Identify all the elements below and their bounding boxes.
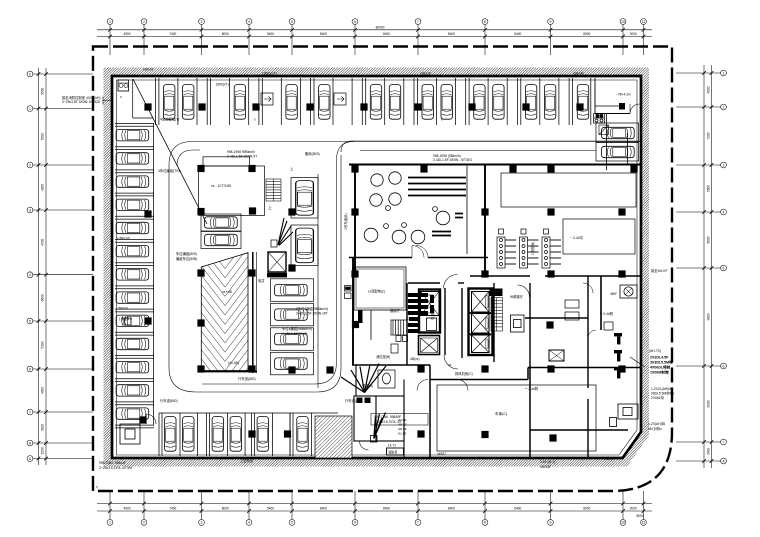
right band fixtures	[565, 283, 596, 338]
svg-text:2: 2	[143, 521, 145, 525]
svg-text:*~2-4#院: *~2-4#院	[600, 311, 614, 316]
svg-text:车库(C): 车库(C)	[495, 411, 507, 416]
svg-text:5400: 5400	[514, 32, 521, 36]
svg-text:x4567: x4567	[437, 452, 446, 456]
svg-text:8400: 8400	[320, 32, 327, 36]
svg-text:5600: 5600	[707, 185, 711, 192]
svg-text:6: 6	[354, 20, 356, 24]
svg-text:1500: 1500	[41, 447, 45, 454]
left grid lines and bubbles	[27, 71, 93, 461]
right margin label stack 2	[651, 387, 675, 400]
svg-text:4200: 4200	[40, 184, 44, 191]
svg-text:排风机房(C): 排风机房(C)	[455, 371, 473, 376]
slash box in stall	[599, 125, 609, 135]
svg-text:5: 5	[291, 521, 293, 525]
elevator lobby top wall	[407, 283, 464, 365]
svg-text:6600: 6600	[40, 294, 44, 301]
ramp side walls	[200, 252, 257, 373]
right margin bold label stack 1	[650, 356, 673, 375]
left wall of electrical area	[352, 258, 354, 366]
central smoke shaft	[267, 252, 287, 277]
pump room top wall	[349, 164, 641, 166]
svg-text:接至AH-KF: 接至AH-KF	[651, 268, 667, 273]
svg-text:80000: 80000	[376, 26, 385, 30]
core stair	[391, 320, 407, 335]
svg-text:3~25x3.5F 3X06L 6/T.528: 3~25x3.5F 3X06L 6/T.528	[62, 100, 100, 104]
right dimension line	[704, 65, 712, 468]
svg-text:4300: 4300	[41, 387, 45, 394]
svg-text:11: 11	[642, 20, 646, 24]
svg-text:3: 3	[29, 208, 31, 212]
pump room bottom wall	[349, 257, 488, 259]
charging box symbols in empty stalls	[261, 93, 346, 105]
svg-text:5M 封特x: 5M 封特x	[648, 426, 662, 431]
right elevator cars	[472, 292, 490, 353]
pipe bars	[408, 178, 466, 236]
svg-text:~7B+4.2m: ~7B+4.2m	[616, 93, 631, 97]
svg-text:1X06M封堵: 1X06M封堵	[650, 370, 669, 375]
vertical labels	[343, 213, 535, 320]
aisle curve top right of stalls	[337, 142, 355, 161]
svg-text:8000: 8000	[222, 506, 229, 510]
pit label white box	[371, 414, 428, 426]
top dimension line	[97, 30, 652, 37]
aisle inner line right	[360, 150, 596, 152]
top grid lines and bubbles	[107, 19, 646, 55]
svg-text:5: 5	[29, 319, 31, 323]
corridor bottom wall	[352, 365, 641, 380]
svg-text:2-4DL1.5F 25/6N x5T: 2-4DL1.5F 25/6N x5T	[296, 312, 328, 316]
damper symbols right band	[604, 322, 622, 378]
svg-text:2000: 2000	[630, 32, 637, 36]
svg-text:3500: 3500	[40, 87, 44, 94]
svg-text:行车道(800): 行车道(800)	[345, 398, 363, 403]
svg-text:2: 2	[143, 20, 145, 24]
smoke exhaust box right band	[549, 350, 564, 361]
svg-text:8000: 8000	[636, 514, 643, 518]
equipment boxes bottom right	[610, 404, 639, 427]
svg-text:3.5/4F: 3.5/4F	[604, 457, 613, 461]
svg-text:2X06L特: 2X06L特	[651, 395, 665, 400]
svg-text:10: 10	[621, 521, 625, 525]
small shaft left	[419, 336, 440, 355]
svg-text:3~25x3.5 3Y0L 4/T: 3~25x3.5 3Y0L 4/T	[374, 420, 402, 424]
central stair	[266, 179, 281, 201]
svg-text:8: 8	[484, 20, 486, 24]
right grid lines and bubbles	[676, 70, 726, 464]
svg-text:8400: 8400	[320, 506, 327, 510]
room above ramp outline	[199, 157, 265, 216]
svg-text:x98-D8: x98-D8	[420, 72, 431, 76]
svg-text:1号车道(B): 1号车道(B)	[343, 213, 348, 230]
water tanks	[364, 172, 450, 244]
conduit branches fan	[278, 218, 293, 246]
svg-text:06034F: 06034F	[540, 465, 551, 469]
svg-text:| 车位4.5: | 车位4.5	[119, 316, 132, 321]
svg-text:2400: 2400	[707, 448, 711, 455]
svg-text:9800: 9800	[707, 313, 711, 320]
svg-text:1: 1	[109, 20, 111, 24]
feeder panels	[497, 229, 561, 268]
corridor wall below rooms	[390, 282, 641, 284]
pump room inner divider	[466, 166, 468, 254]
bottom-left pit room	[117, 410, 160, 444]
bottom parking row stalls	[159, 413, 338, 456]
svg-text:1850x(xT): 1850x(xT)	[262, 72, 277, 76]
panel row below stair	[391, 336, 408, 354]
svg-text:2-4DL1.5F 25/5N - 5/T.5E1: 2-4DL1.5F 25/5N - 5/T.5E1	[433, 158, 473, 162]
svg-text:(4x-xB): (4x-xB)	[228, 361, 239, 365]
svg-text:11: 11	[642, 521, 646, 525]
property boundary dashed line	[93, 47, 672, 492]
storage room shelf	[595, 105, 619, 107]
svg-text:4: 4	[248, 521, 250, 525]
svg-text:上: 上	[268, 204, 272, 210]
svg-text:1-2X(AH)特: 1-2X(AH)特	[648, 421, 666, 426]
svg-text:消防泵: 消防泵	[388, 449, 398, 454]
svg-text:x99-04: x99-04	[143, 68, 153, 72]
svg-text:1: 1	[29, 107, 31, 111]
svg-text:7: 7	[29, 410, 31, 414]
svg-text:候梯(B): 候梯(B)	[362, 383, 373, 388]
left parking column cars	[116, 130, 149, 420]
svg-text:2: 2	[723, 105, 725, 109]
center upper cars	[296, 181, 314, 263]
svg-text:2000: 2000	[630, 506, 637, 510]
svg-text:2X2DL4.5F: 2X2DL4.5F	[650, 356, 669, 360]
svg-text:7: 7	[723, 440, 725, 444]
svg-text:4车位编组(T): 4车位编组(T)	[160, 117, 179, 122]
fire control room walls	[354, 365, 404, 457]
svg-text:8000: 8000	[222, 32, 229, 36]
svg-text:7: 7	[417, 521, 419, 525]
drive aisle loop outer	[169, 142, 642, 393]
svg-text:3X3DL5.5M特: 3X3DL5.5M特	[650, 360, 673, 365]
svg-text:9: 9	[550, 521, 552, 525]
svg-text:3: 3	[201, 20, 203, 24]
svg-text:3: 3	[723, 163, 725, 167]
svg-text:5U.1E: 5U.1E	[398, 432, 406, 436]
door arcs corridor	[444, 275, 530, 370]
left column stall labels	[117, 236, 130, 310]
svg-text:3-65 (M-1): 3-65 (M-1)	[540, 460, 555, 464]
two cars above ramp	[201, 214, 241, 249]
svg-text:10: 10	[621, 20, 625, 24]
svg-text:5: 5	[291, 20, 293, 24]
svg-text:5400: 5400	[267, 32, 274, 36]
svg-text:5100: 5100	[41, 341, 45, 348]
svg-text:3: 3	[201, 521, 203, 525]
svg-text:6: 6	[29, 367, 31, 371]
center lower stalls	[271, 279, 314, 375]
storage room door arc	[630, 104, 640, 114]
svg-text:1: 1	[109, 521, 111, 525]
elevator separators black	[469, 312, 491, 335]
svg-text:xx变配电(C): xx变配电(C)	[368, 289, 385, 294]
pump room left wall	[354, 165, 356, 277]
bottom grid lines and bubbles	[107, 491, 646, 525]
svg-text:*~2-4#院: *~2-4#院	[525, 386, 539, 391]
svg-text:4B(xx): 4B(xx)	[410, 357, 420, 361]
svg-text:8000: 8000	[583, 506, 590, 510]
svg-text:4000: 4000	[707, 86, 711, 93]
conduit diagonal from corner	[133, 79, 207, 224]
svg-text:4700: 4700	[40, 239, 44, 246]
svg-text:1: 1	[723, 71, 725, 75]
leader to stack1	[630, 357, 645, 367]
bottom right rooms	[430, 365, 628, 457]
svg-text:8000: 8000	[583, 32, 590, 36]
svg-text:8: 8	[484, 521, 486, 525]
elevator bank walls	[419, 289, 493, 356]
svg-text:4车位编组(T03): 4车位编组(T03)	[158, 168, 181, 173]
svg-text:7: 7	[417, 20, 419, 24]
svg-text:4B/F: 4B/F	[610, 292, 617, 296]
svg-text:车位编组(800): 车位编组(800)	[176, 251, 197, 256]
svg-text:6: 6	[354, 521, 356, 525]
label box bottom	[387, 444, 404, 456]
building exterior wall	[112, 76, 641, 458]
svg-text:xx: xx	[448, 363, 452, 367]
svg-text:999. DN6. 998A9F: 999. DN6. 998A9F	[374, 415, 401, 419]
svg-text:2-4DL1.5F 25/5N-5T: 2-4DL1.5F 25/5N-5T	[227, 155, 257, 159]
svg-text:(AH-7S): (AH-7S)	[649, 349, 661, 353]
fire control radiating cable fan upper	[341, 364, 386, 393]
svg-text:xx+xB: xx+xB	[222, 290, 232, 294]
svg-text:06DL5.5M封特x: 06DL5.5M封特x	[651, 391, 675, 396]
svg-text:8400: 8400	[383, 32, 390, 36]
svg-text:行车道(800): 行车道(800)	[238, 376, 256, 381]
bottom dimension line	[97, 504, 652, 512]
svg-text:xx - 1CT/10B: xx - 1CT/10B	[211, 184, 232, 188]
small boxes left of electrical room	[345, 286, 352, 299]
svg-text:7400: 7400	[169, 506, 176, 510]
large shallow room top right	[501, 173, 636, 207]
svg-text:8400: 8400	[448, 32, 455, 36]
small wall box left	[124, 318, 131, 325]
svg-text:6: 6	[723, 364, 725, 368]
fan unit symbol top right	[620, 285, 637, 298]
svg-text:8: 8	[29, 441, 31, 445]
small meter box	[271, 240, 277, 247]
top parking row stalls	[156, 78, 591, 125]
svg-text:1-2X2L(AH)M: 1-2X2L(AH)M	[651, 387, 671, 391]
top-right storage room	[595, 78, 630, 114]
svg-text:1 B03-C5: 1 B03-C5	[117, 236, 130, 240]
riser lines	[606, 114, 608, 171]
svg-text:1850(xT): 1850(xT)	[216, 83, 229, 87]
svg-text:2: 2	[29, 163, 31, 167]
svg-text:4900: 4900	[123, 32, 130, 36]
fire control radiating cable fan lower	[371, 413, 386, 443]
corner utility room	[133, 79, 153, 118]
top parking row cars	[164, 85, 556, 120]
bottom right big room outline	[437, 385, 596, 451]
center upper vertical stalls	[291, 178, 318, 266]
corner sensor box	[118, 80, 129, 91]
pump room right wall	[484, 165, 486, 277]
svg-text:1号院(B): 1号院(B)	[530, 242, 535, 255]
bottom parking row cars	[165, 417, 309, 452]
svg-text:4: 4	[723, 210, 725, 214]
svg-text:5400: 5400	[267, 506, 274, 510]
annotation leader top-left	[103, 97, 113, 105]
lobby walls vertical	[462, 276, 601, 457]
svg-text:车位4编组(988km/h): 车位4编组(988km/h)	[282, 326, 312, 331]
svg-text:5400: 5400	[514, 506, 521, 510]
svg-text:998. DN4. 998A4F: 998. DN4. 998A4F	[99, 461, 126, 465]
fire room equipment	[357, 398, 371, 404]
svg-text:行车道(800): 行车道(800)	[160, 398, 178, 403]
left parking column stalls	[115, 124, 154, 428]
svg-text:3100: 3100	[41, 424, 45, 431]
aisle edge line top	[341, 141, 642, 152]
svg-text:8400: 8400	[383, 506, 390, 510]
core right stair	[491, 298, 503, 332]
stall block right edge	[317, 174, 319, 388]
WC fixture	[378, 370, 395, 388]
svg-text:9: 9	[550, 20, 552, 24]
structural columns	[139, 103, 637, 441]
svg-text:2-4DL1.5F 25/6N: 2-4DL1.5F 25/6N	[282, 332, 308, 336]
svg-text:2车位4编组(98Bkm/h): 2车位4编组(98Bkm/h)	[296, 306, 328, 311]
svg-text:8400: 8400	[448, 506, 455, 510]
svg-text:编组车位(80B): 编组车位(80B)	[176, 256, 197, 261]
thick wall segment below electrical room	[358, 310, 363, 323]
box-in-box symbol lobby	[511, 315, 525, 332]
svg-text:7400: 7400	[169, 32, 176, 36]
panel cluster tick lines	[406, 295, 434, 331]
svg-text:3~25x3.5 3Y0L 4/T.5M: 3~25x3.5 3Y0L 4/T.5M	[99, 466, 132, 470]
svg-text:4X06DL特封: 4X06DL特封	[650, 365, 671, 370]
svg-text:5: 5	[723, 266, 725, 270]
svg-text:W候梯厅: W候梯厅	[510, 294, 524, 299]
svg-text:~ 2-4#坑: ~ 2-4#坑	[570, 235, 584, 240]
svg-text:| B03C6: | B03C6	[117, 306, 128, 310]
svg-text:7200: 7200	[707, 132, 711, 139]
svg-text:4M.9E: 4M.9E	[398, 427, 407, 431]
exterior wall hatch band	[104, 68, 650, 467]
svg-text:x98+4s: x98+4s	[573, 72, 584, 76]
svg-text:4900: 4900	[123, 506, 130, 510]
panel cluster left of shaft	[408, 293, 434, 333]
corridor top wall	[470, 275, 641, 277]
electrical room upper-left of core	[354, 267, 406, 310]
svg-text:备用(B03): 备用(B03)	[305, 151, 320, 156]
svg-text:4: 4	[248, 20, 250, 24]
svg-text:6600: 6600	[707, 236, 711, 243]
svg-text:上空特设: 上空特设	[240, 458, 254, 463]
svg-text:电井: 电井	[258, 278, 265, 283]
door arc fire room	[360, 380, 469, 451]
center lower cars	[275, 284, 308, 369]
hatched floor pit bottom	[315, 416, 352, 458]
svg-text:9000: 9000	[707, 400, 711, 407]
small panel boxes right top	[594, 114, 605, 124]
svg-text:998-1998 99Bkm/h: 998-1998 99Bkm/h	[227, 150, 255, 154]
right room 2	[563, 219, 635, 254]
drive aisle loop inner	[177, 150, 337, 384]
fire room label stack	[398, 418, 407, 436]
right double stall cars	[596, 123, 639, 161]
door arcs pump room	[412, 246, 428, 258]
svg-text:5200: 5200	[40, 133, 44, 140]
svg-text:车道坡(B): 车道坡(B)	[430, 305, 435, 320]
svg-text:候梯厅: 候梯厅	[390, 308, 401, 313]
svg-text:.14.71: .14.71	[387, 444, 396, 448]
svg-text:4: 4	[29, 273, 31, 277]
svg-text:消控室(B): 消控室(B)	[376, 354, 390, 359]
left dimension line	[39, 68, 47, 465]
left elevator car	[421, 292, 440, 331]
